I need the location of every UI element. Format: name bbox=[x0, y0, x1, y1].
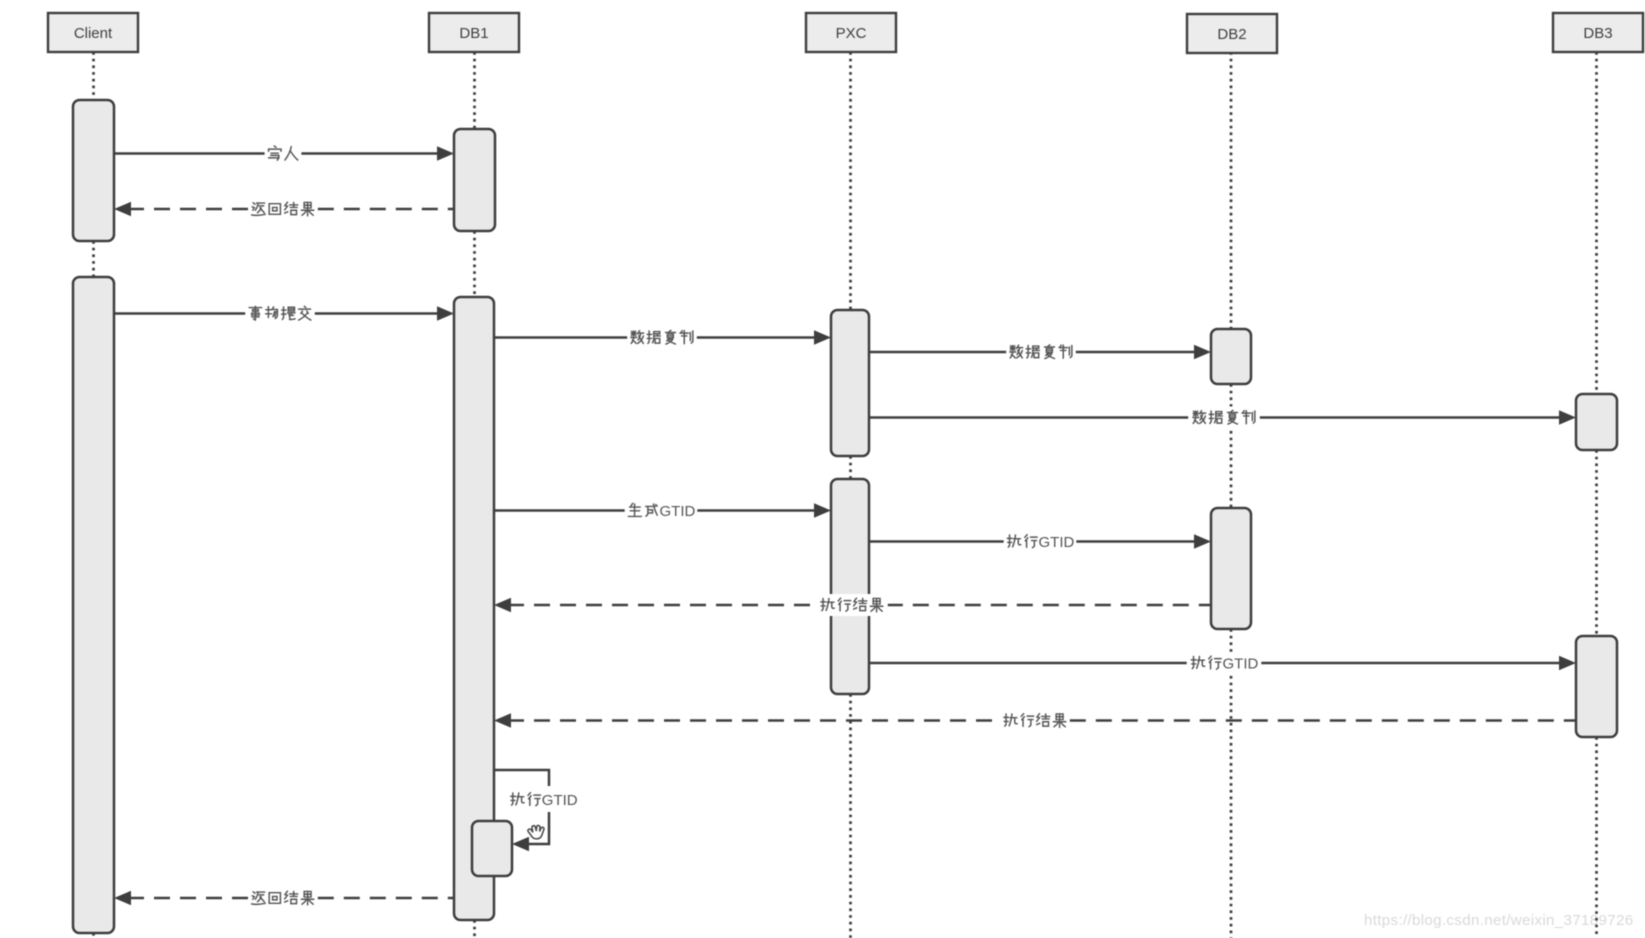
svg-text:GTID: GTID bbox=[542, 792, 578, 809]
svg-text:DB1: DB1 bbox=[459, 25, 488, 42]
svg-text:GTID: GTID bbox=[1039, 534, 1075, 551]
svg-text:GTID: GTID bbox=[1223, 655, 1259, 672]
svg-text:PXC: PXC bbox=[836, 25, 867, 42]
svg-text:DB3: DB3 bbox=[1583, 25, 1612, 42]
svg-text:https://blog.csdn.net/weixin_3: https://blog.csdn.net/weixin_37189726 bbox=[1364, 912, 1633, 929]
svg-text:GTID: GTID bbox=[660, 503, 696, 520]
svg-text:DB2: DB2 bbox=[1217, 26, 1246, 43]
svg-text:Client: Client bbox=[74, 25, 113, 42]
